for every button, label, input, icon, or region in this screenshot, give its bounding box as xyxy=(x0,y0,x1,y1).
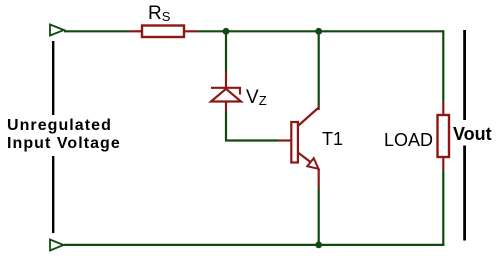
node junction after RS xyxy=(223,28,230,35)
wire LOAD bottom lead xyxy=(442,157,444,170)
wire resistor RS right lead xyxy=(184,30,198,32)
label RS xyxy=(148,3,170,25)
resistor LOAD xyxy=(438,115,450,157)
wire right side vertical green upper xyxy=(442,30,444,102)
label Vout xyxy=(453,124,492,145)
zener diode VZ xyxy=(211,88,241,102)
output indicator line lower xyxy=(463,146,466,241)
wire top rail right green xyxy=(198,30,443,32)
label VZ xyxy=(246,87,267,109)
transistor T1 xyxy=(291,108,318,169)
wire LOAD top lead xyxy=(442,102,444,115)
wire top rail left green xyxy=(64,30,129,32)
wire zener top green xyxy=(225,33,227,72)
wire emitter vertical maroon xyxy=(318,169,320,189)
wire resistor RS left lead xyxy=(129,30,142,32)
wire emitter vertical green xyxy=(318,189,320,245)
label Unregulated Input Voltage xyxy=(7,117,121,153)
node emitter junction on bottom rail xyxy=(315,242,322,249)
wire base lead xyxy=(278,139,291,141)
resistor RS xyxy=(142,26,184,38)
output indicator line upper xyxy=(463,30,466,120)
left input line upper segment xyxy=(52,41,54,115)
wire zener to base corner xyxy=(226,111,278,141)
wire collector vertical green xyxy=(318,32,320,106)
node collector junction on top rail xyxy=(315,28,322,35)
wire zener cathode lead xyxy=(225,72,227,87)
input terminal bottom xyxy=(50,240,64,251)
wire right side vertical green lower xyxy=(442,170,444,246)
wire bottom rail xyxy=(64,244,445,246)
wire zener anode lead xyxy=(225,102,227,111)
label LOAD xyxy=(384,130,433,151)
left input line lower segment xyxy=(52,156,54,233)
input terminal top xyxy=(50,25,64,36)
label T1 xyxy=(322,129,343,150)
wire collector vertical maroon xyxy=(318,106,320,110)
